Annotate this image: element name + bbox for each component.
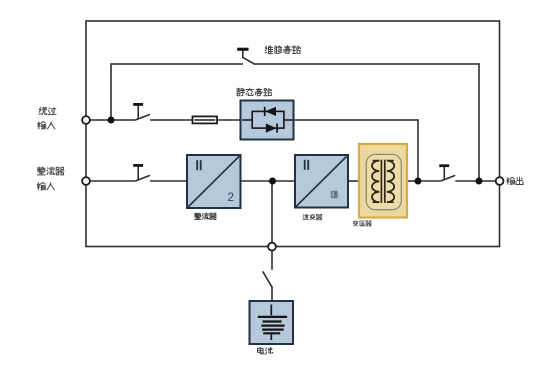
svg-text:2: 2 (227, 190, 234, 204)
